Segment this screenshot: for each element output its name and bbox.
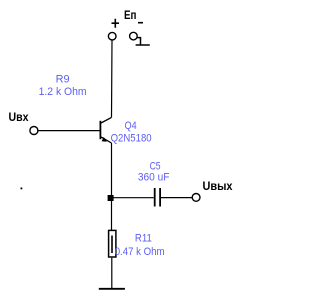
svg-text:Uвых: Uвых xyxy=(203,179,233,193)
wire emitter down xyxy=(111,143,113,230)
wire C5 to output terminal xyxy=(161,197,192,199)
svg-text:Q2N5180: Q2N5180 xyxy=(111,133,152,145)
ground (negative terminal) xyxy=(136,38,150,45)
svg-text:R11: R11 xyxy=(135,233,152,245)
resistor R11 xyxy=(109,230,116,257)
power terminal - xyxy=(130,32,138,40)
wire R11 to ground xyxy=(111,258,113,289)
stray dot xyxy=(21,188,23,190)
input terminal Uvx xyxy=(30,127,38,135)
plus sign (En positive polarity) xyxy=(112,19,120,28)
transistor Q4 (NPN) xyxy=(100,117,111,143)
wire supply to collector xyxy=(111,40,114,117)
output terminal Uvyx xyxy=(192,194,200,202)
svg-text:R9: R9 xyxy=(56,73,70,85)
svg-text:Eп: Eп xyxy=(124,8,137,22)
svg-text:1.2 k Ohm: 1.2 k Ohm xyxy=(39,86,87,98)
node junction emitter/C5/R11 xyxy=(108,195,114,201)
wire junction to C5 xyxy=(114,197,154,199)
minus sign (En negative polarity) xyxy=(138,22,143,24)
svg-text:Q4: Q4 xyxy=(125,120,137,132)
svg-text:Uвх: Uвх xyxy=(9,110,29,124)
svg-text:0.47 k Ohm: 0.47 k Ohm xyxy=(115,246,165,258)
power terminal + xyxy=(108,32,116,40)
ground (bottom) xyxy=(99,288,125,290)
wire input to base xyxy=(38,130,99,132)
svg-text:360 uF: 360 uF xyxy=(138,171,170,183)
capacitor C5 xyxy=(155,188,160,207)
